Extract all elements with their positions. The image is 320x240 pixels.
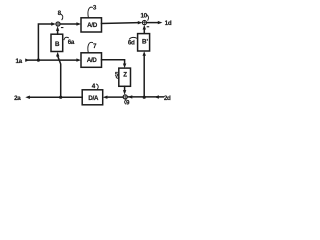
leader for label 4 [97, 84, 99, 89]
svg-text:B': B' [142, 39, 149, 46]
arrowhead into A/D 3 [76, 22, 81, 25]
arrowhead into adder 9 from right [128, 95, 133, 98]
svg-text:1a: 1a [15, 58, 22, 65]
block B' (6d) [138, 34, 150, 51]
wire: Z output down into adder 9 [124, 86, 126, 90]
A/D converter block 3 [81, 18, 102, 32]
svg-text:10: 10 [140, 12, 147, 19]
wire: adder 8 to A/D 3 [60, 23, 77, 25]
svg-text:A/D: A/D [87, 22, 98, 29]
arrowhead up into B [56, 52, 59, 57]
wire: node on 1a line up and right into adder 8 [38, 24, 51, 60]
arrowhead up into adder 10 [143, 25, 146, 30]
arrowhead into adder 8 [51, 22, 56, 25]
leader for label 6d [129, 37, 137, 39]
leader for label 6a [64, 37, 68, 39]
minus sign at adder 10 lower input [147, 26, 150, 27]
svg-text:6a: 6a [68, 39, 75, 46]
wire: input 1a to A/D 7 [29, 59, 77, 61]
node: junction dot on 1a line [37, 59, 40, 62]
wire: B output up into adder 8 [57, 31, 59, 35]
arrowhead into A/D 7 [76, 58, 81, 61]
adder S8 [56, 22, 60, 26]
arrowhead down into Z [123, 64, 126, 69]
leader for label 8 [61, 14, 63, 19]
wire: adder 10 to output 1d [147, 22, 159, 24]
D/A converter block 4 [82, 90, 103, 105]
adder S9 [123, 95, 127, 99]
wire: A/D 7 output right then down into Z [102, 60, 125, 64]
block Z (5) [119, 68, 131, 86]
leader for label 5 [116, 77, 119, 78]
arrowhead into adder 10 [138, 21, 143, 24]
arrowhead down into adder 9 [123, 90, 126, 95]
svg-text:D/A: D/A [88, 95, 99, 102]
node: junction dot on 2d line below B' [143, 96, 146, 99]
svg-text:7: 7 [93, 43, 97, 50]
svg-text:3: 3 [93, 5, 97, 12]
wire: A/D 3 to adder 10 [102, 22, 138, 25]
svg-text:4: 4 [92, 83, 96, 90]
arrowhead on 2d line pointing left [154, 95, 159, 98]
svg-text:B: B [55, 41, 60, 48]
A/D converter block 7 [81, 53, 102, 68]
block B (6a) [51, 34, 63, 51]
wire: from node on 2a line up into B [58, 56, 61, 97]
wire: D/A output left to 2a [30, 96, 82, 98]
arrowhead into D/A right side [103, 96, 108, 99]
svg-text:2a: 2a [14, 95, 21, 102]
wire: input 2d line to adder 9 [128, 96, 164, 98]
svg-text:Z: Z [123, 72, 127, 79]
arrowhead of output 1d [158, 21, 163, 24]
svg-text:2d: 2d [164, 95, 171, 102]
arrowhead up into adder 8 [56, 26, 59, 31]
svg-text:8: 8 [58, 10, 62, 17]
leader for label 3 [88, 7, 93, 17]
adder S10 [142, 21, 146, 25]
minus sign at adder 8 lower input [61, 27, 64, 28]
arrowhead of output 2a [25, 96, 30, 99]
leader for label 10 [147, 15, 149, 20]
svg-text:1d: 1d [165, 20, 172, 27]
wire: from node on 2d line up into B' [143, 56, 145, 98]
leader for label 7 [88, 42, 93, 52]
svg-text:9: 9 [126, 99, 130, 106]
arrowhead up into B' [143, 51, 146, 56]
svg-text:6d: 6d [128, 39, 135, 46]
node: junction dot on 2a line [59, 96, 62, 99]
wire: B' output up into adder 10 [143, 29, 145, 33]
arrowhead at start of input 1a [25, 58, 30, 61]
wire: adder 9 to D/A [107, 96, 123, 98]
svg-text:A/D: A/D [87, 57, 98, 64]
leader for label 9 [125, 100, 126, 104]
